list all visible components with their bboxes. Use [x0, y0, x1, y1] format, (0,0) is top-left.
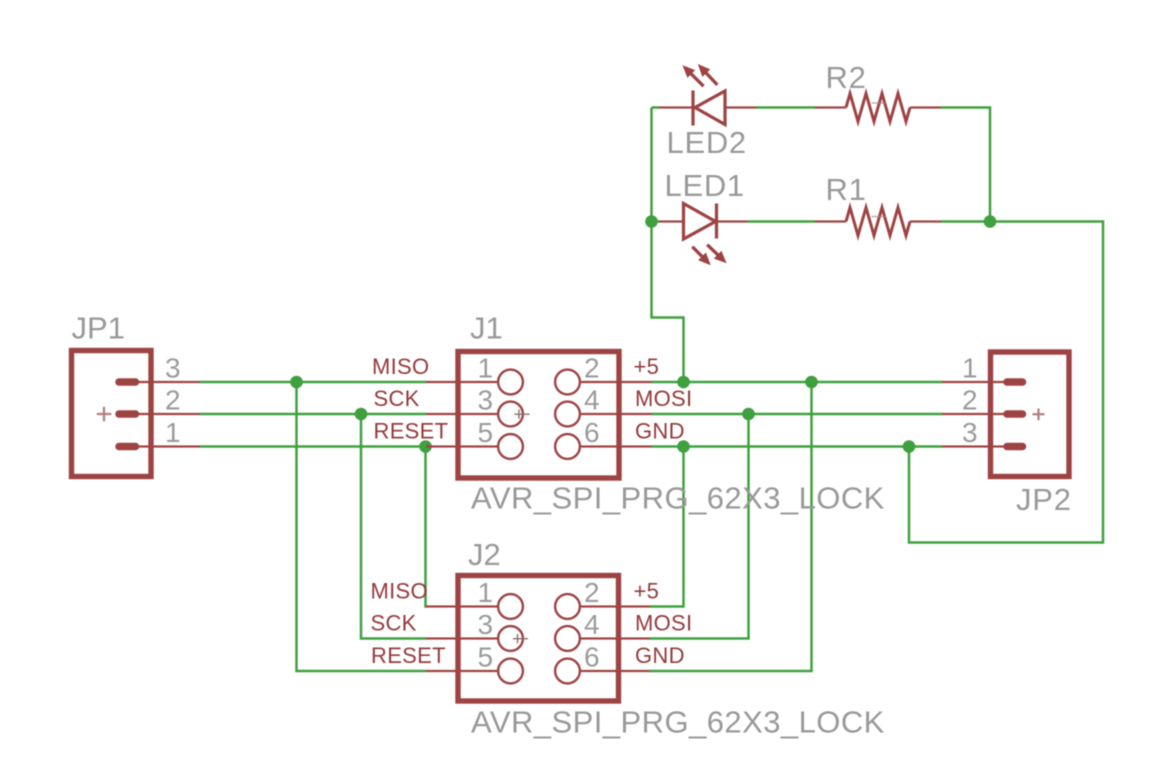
- svg-text:2: 2: [962, 385, 978, 416]
- svg-text:4: 4: [584, 385, 600, 416]
- node junction GND row / J2 branch: [677, 440, 690, 453]
- J2 pin 4 lead: [579, 637, 650, 639]
- svg-text:5: 5: [478, 417, 494, 448]
- svg-text:R2: R2: [826, 60, 867, 95]
- J2 pin 1 lead: [426, 605, 499, 607]
- JP2 polarity plus: [1033, 409, 1045, 421]
- node junction on RESET row: [419, 440, 432, 453]
- JP1 polarity plus: [97, 407, 112, 422]
- diode LED1: [659, 204, 748, 240]
- J1 pin 5 lead: [426, 445, 499, 447]
- svg-text:JP1: JP1: [72, 311, 125, 346]
- svg-text:JP2: JP2: [1016, 482, 1072, 517]
- svg-text:MISO: MISO: [371, 579, 428, 604]
- J2 pin 2 circle: [555, 594, 580, 619]
- J1 pin 1 circle: [498, 370, 523, 395]
- J1 pin 2 lead: [579, 381, 652, 383]
- LED2 light arrow a: [683, 65, 704, 86]
- svg-text:LED2: LED2: [667, 125, 747, 160]
- svg-text:SCK: SCK: [374, 386, 420, 411]
- JP1 pin 3 lead: [135, 381, 200, 383]
- svg-text:4: 4: [584, 609, 600, 640]
- svg-text:1: 1: [478, 353, 494, 384]
- svg-text:SCK: SCK: [371, 611, 417, 636]
- J1 pin 3 lead: [426, 413, 499, 415]
- node junction on MISO row at JP1: [290, 376, 303, 389]
- R1 value tick: [872, 216, 887, 218]
- J2 small plus mark: [513, 634, 528, 643]
- J1 small plus mark: [515, 410, 530, 419]
- wire LED feed from LED column down to +5 row: [652, 108, 684, 383]
- svg-text:AVR_SPI_PRG_62X3_LOCK: AVR_SPI_PRG_62X3_LOCK: [471, 481, 885, 516]
- J2 pin 5 lead: [426, 670, 499, 672]
- J1 pin 3 circle: [498, 402, 523, 427]
- LED1 light arrow b: [707, 245, 726, 264]
- J1 pin 4 circle: [555, 402, 580, 427]
- wire net MISO vertical branch to J2 pin 5 (RESET row): [297, 382, 427, 671]
- node junction GND row / bottom loop: [903, 440, 916, 453]
- header J1: [458, 352, 619, 479]
- connector JP1: [72, 351, 152, 477]
- svg-text:1: 1: [962, 353, 978, 384]
- svg-text:5: 5: [478, 642, 494, 673]
- svg-text:R1: R1: [826, 172, 867, 207]
- JP2 pin 1 lead: [942, 381, 1008, 383]
- wire LED1 anode stub: [652, 220, 660, 223]
- svg-text:3: 3: [962, 417, 978, 448]
- JP2 pin 1 pad: [1007, 378, 1023, 386]
- wire net RESET from JP1 pin 1 to J1 pin 5: [200, 445, 426, 448]
- J2 pin 1 circle: [498, 594, 523, 619]
- R2 value tick: [872, 102, 887, 104]
- JP1 pin 1 pad: [119, 443, 136, 451]
- node junction on SCK row: [355, 408, 368, 421]
- J2 pin 3 lead: [426, 637, 499, 639]
- JP2 pin 2 lead: [942, 413, 1008, 415]
- JP1 pin 2 lead: [135, 413, 200, 415]
- wire net RESET vertical branch to J2 pin 1 (MISO row): [426, 447, 428, 607]
- J1 pin 1 lead: [426, 381, 499, 383]
- wire LED2 to R2: [757, 106, 816, 109]
- svg-text:6: 6: [584, 642, 600, 673]
- LED1 light arrow a: [692, 247, 711, 266]
- svg-text:6: 6: [584, 417, 600, 448]
- svg-text:J2: J2: [468, 537, 501, 572]
- node junction R1/R2 column: [984, 215, 997, 228]
- svg-text:MOSI: MOSI: [635, 611, 692, 636]
- J1 pin 6 lead: [579, 445, 652, 447]
- J2 pin 6 circle: [555, 659, 580, 684]
- svg-text:+5: +5: [634, 354, 660, 379]
- JP1 pin 2 pad: [119, 410, 136, 418]
- svg-text:3: 3: [478, 385, 494, 416]
- node junction MOSI row: [742, 408, 755, 421]
- diode LED2: [659, 91, 757, 126]
- svg-text:1: 1: [165, 417, 181, 448]
- svg-text:GND: GND: [635, 419, 685, 444]
- wire R2 to right column: [941, 108, 990, 222]
- J2 pin 4 circle: [555, 626, 580, 651]
- svg-text:2: 2: [165, 385, 181, 416]
- svg-text:RESET: RESET: [371, 643, 446, 668]
- JP2 pin 3 lead: [942, 445, 1008, 447]
- wire vertical branch from +5 row down to J2 pin 6 (GND row): [650, 382, 812, 671]
- svg-text:3: 3: [478, 609, 494, 640]
- resistor R1: [815, 208, 941, 236]
- JP2 pin 3 pad: [1007, 443, 1023, 451]
- node junction +5 row / J2 GND branch: [805, 376, 818, 389]
- wire R1 right to bottom loop into JP2 pin 3 row: [909, 222, 1103, 543]
- J2 pin 6 lead: [579, 670, 650, 672]
- header J2: [458, 576, 619, 702]
- svg-text:MOSI: MOSI: [635, 386, 692, 411]
- LED2 light arrow b: [698, 64, 718, 85]
- svg-text:AVR_SPI_PRG_62X3_LOCK: AVR_SPI_PRG_62X3_LOCK: [471, 705, 885, 740]
- svg-text:2: 2: [584, 577, 600, 608]
- wire vertical branch GND to J2 pin 2 (+5 row): [650, 447, 684, 607]
- svg-text:GND: GND: [635, 643, 685, 668]
- wire net GND from J1 pin 6 to JP2 pin 3: [652, 445, 943, 448]
- svg-text:J1: J1: [470, 311, 503, 346]
- node junction +5 row / LED feed: [677, 376, 690, 389]
- svg-text:2: 2: [584, 353, 600, 384]
- connector JP2: [991, 352, 1070, 477]
- svg-text:MISO: MISO: [372, 354, 429, 379]
- J1 pin 6 circle: [555, 434, 580, 459]
- node junction LED column / LED1: [645, 215, 658, 228]
- svg-text:+5: +5: [634, 579, 660, 604]
- wire net +5 from J1 pin 2 to JP2 pin 1: [652, 381, 943, 384]
- resistor R2: [815, 94, 941, 122]
- J2 pin 2 lead: [579, 605, 650, 607]
- svg-text:RESET: RESET: [374, 419, 449, 444]
- wire net SCK vertical branch to J2 pin 3: [361, 414, 426, 639]
- wire net MOSI from J1 pin 4 to JP2 pin 2: [652, 413, 943, 416]
- JP1 pin 1 lead: [135, 445, 200, 447]
- wire net MISO from JP1 pin 3 to J1 pin 1: [200, 381, 426, 384]
- J2 pin 3 circle: [498, 626, 523, 651]
- wire net SCK from JP1 pin 2 to J1 pin 3: [200, 413, 426, 416]
- J1 pin 5 circle: [498, 434, 523, 459]
- wire vertical branch MOSI to J2 pin 4: [650, 414, 749, 639]
- wire LED2 anode lead stub: [652, 106, 660, 109]
- JP1 pin 3 pad: [119, 378, 136, 386]
- svg-text:1: 1: [478, 577, 494, 608]
- svg-text:3: 3: [165, 353, 181, 384]
- J1 pin 4 lead: [579, 413, 652, 415]
- svg-text:LED1: LED1: [665, 168, 745, 203]
- wire LED1 to R1: [748, 220, 816, 223]
- J1 pin 2 circle: [555, 370, 580, 395]
- JP2 pin 2 pad: [1007, 410, 1023, 418]
- J2 pin 5 circle: [498, 659, 523, 684]
